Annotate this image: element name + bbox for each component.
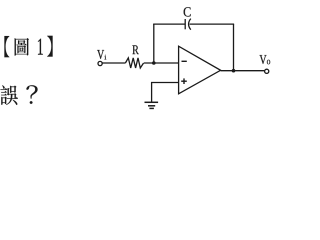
- label figure caption 【 bracket: [4, 36, 9, 57]
- label Vo: [260, 55, 267, 64]
- label question text 誤 character: [0, 85, 17, 105]
- node junction at output feedback tap: [232, 69, 236, 73]
- resistor R: [125, 58, 143, 68]
- wire feedback right vertical: [233, 24, 235, 71]
- op-amp inverting input minus sign: [182, 60, 187, 62]
- ground symbol: [145, 101, 159, 103]
- label R: [132, 45, 138, 54]
- wire feedback top left to capacitor: [153, 23, 185, 25]
- label C: [184, 7, 191, 16]
- label figure caption 圖 character: [15, 38, 29, 56]
- wire non-inverting input to ground stem: [152, 83, 179, 103]
- capacitor C: [184, 19, 186, 29]
- wire feedback left vertical: [153, 24, 155, 63]
- op-amp non-inverting input plus sign: [181, 80, 187, 82]
- op-amp U1 triangle: [179, 46, 221, 94]
- label figure number 1: [38, 39, 43, 55]
- wire op-amp output to Vo terminal: [221, 70, 265, 72]
- node junction at inverting input: [152, 61, 156, 65]
- node Vo output terminal: [265, 69, 269, 73]
- wire capacitor to feedback right: [190, 23, 235, 25]
- wire Vi to resistor: [102, 62, 125, 64]
- label Vi: [97, 50, 104, 59]
- node Vi input terminal: [98, 61, 102, 65]
- label question text ？ character: [26, 85, 37, 104]
- wire resistor to op-amp inverting input: [144, 62, 179, 64]
- label figure caption 】 bracket: [47, 36, 52, 57]
